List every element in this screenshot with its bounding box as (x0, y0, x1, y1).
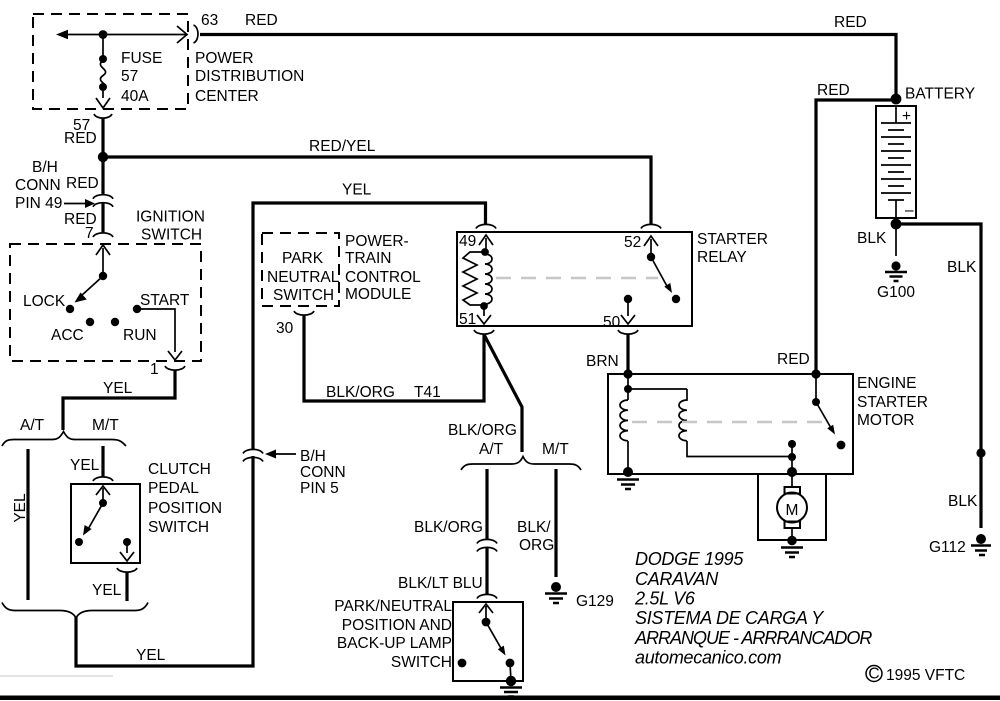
svg-text:B/H: B/H (32, 159, 58, 176)
svg-text:52: 52 (624, 234, 641, 251)
svg-text:CARAVAN: CARAVAN (635, 569, 719, 589)
ignition arm pivot (99, 272, 107, 280)
node battery positive (891, 94, 902, 105)
relay coil bumps (485, 254, 492, 304)
motor link dashed (632, 421, 823, 423)
svg-text:RED: RED (834, 14, 867, 31)
clutch arm pivot (99, 499, 107, 507)
svg-text:STARTER: STARTER (857, 394, 928, 411)
wire BLK battery to G112 (896, 224, 981, 528)
svg-text:YEL: YEL (342, 182, 372, 199)
svg-text:PARK: PARK (282, 250, 324, 267)
svg-text:TRAIN: TRAIN (345, 250, 392, 267)
svg-text:BLK/: BLK/ (517, 519, 551, 536)
svg-text:G112: G112 (929, 539, 966, 556)
fuse F57 element (100, 61, 105, 89)
connector relay pin 49 (476, 224, 496, 228)
svg-text:POWER: POWER (195, 50, 254, 67)
wire YEL M/T branch (101, 446, 104, 477)
node motor feed mid (788, 453, 796, 461)
bottom border line (0, 696, 1000, 701)
ground G100 (885, 272, 907, 281)
svg-text:40A: 40A (121, 88, 149, 105)
connector relay pin 52 (641, 224, 661, 228)
svg-text:51: 51 (459, 311, 476, 328)
svg-text:POSITION: POSITION (148, 500, 222, 517)
power distribution center box (33, 14, 188, 109)
svg-text:2.5L V6: 2.5L V6 (634, 589, 696, 609)
motor brush top (785, 487, 801, 494)
connector ignition pin 7 (93, 233, 113, 237)
wire YEL A/T branch (26, 449, 29, 600)
wire BLK/ORG M/T branch (554, 469, 557, 577)
relay pin 50 male arrow (621, 301, 635, 324)
svg-text:BLK/LT BLU: BLK/LT BLU (398, 575, 483, 592)
contact START (133, 305, 141, 313)
svg-text:M: M (786, 502, 799, 519)
svg-text:A/T: A/T (479, 441, 504, 458)
clutch pedal position switch box (71, 484, 140, 563)
ignition switch box (10, 244, 201, 361)
wire RED fuse 63 to battery (200, 35, 896, 96)
engine starter motor box (608, 374, 853, 474)
svg-text:PIN 49: PIN 49 (15, 195, 62, 212)
svg-text:50: 50 (603, 314, 621, 331)
connector relay pin 51 (474, 330, 494, 334)
motor feed wire (791, 440, 793, 474)
svg-text:RED: RED (245, 12, 278, 29)
solenoid fixed contact (837, 441, 846, 450)
ignition wiper arm (81, 276, 103, 296)
connector pin 63 female (194, 25, 199, 43)
relay switch arm (651, 257, 668, 288)
solenoid hold-in coil (679, 389, 792, 457)
copyright circle C (866, 666, 882, 682)
motor M1 body (777, 493, 807, 523)
ignition pin 7 male arrow (96, 245, 110, 255)
connector PNS pin 30 (294, 311, 314, 315)
clutch contact left (75, 538, 83, 546)
park neutral switch box (262, 233, 339, 306)
svg-text:SWITCH: SWITCH (273, 287, 334, 304)
svg-text:SISTEMA DE CARGA Y: SISTEMA DE CARGA Y (635, 608, 825, 628)
svg-text:PEDAL: PEDAL (148, 480, 199, 497)
ground G129 (545, 594, 567, 604)
ignition arm wire (102, 248, 104, 276)
ground below PNPS (500, 688, 522, 697)
battery plates (881, 123, 911, 200)
svg-text:PARK/NEUTRAL: PARK/NEUTRAL (334, 598, 452, 615)
PNPS ground node (506, 676, 516, 686)
connector clutch switch bottom (117, 568, 137, 572)
svg-text:BLK: BLK (948, 493, 978, 510)
clutch contact right (123, 538, 131, 546)
relay coil zigzag (463, 252, 485, 305)
svg-text:BLK/ORG: BLK/ORG (414, 519, 483, 536)
svg-text:A/T: A/T (20, 417, 45, 434)
motor ground wire (791, 528, 793, 541)
svg-text:B/H: B/H (300, 448, 326, 465)
relay pin 49 male arrow (479, 235, 493, 252)
wire RED/YEL splice to relay pin 52 (103, 157, 651, 225)
wire branch to second coil (628, 388, 687, 390)
PNPS contact lower (506, 659, 515, 668)
svg-text:DISTRIBUTION: DISTRIBUTION (195, 68, 304, 85)
svg-text:49: 49 (459, 233, 476, 250)
node BRN entry (623, 369, 632, 378)
svg-text:ARRANQUE - ARRRANCADOR: ARRANQUE - ARRRANCADOR (634, 628, 872, 648)
starter relay box (457, 232, 692, 326)
brace merge A/T M/T (2, 603, 148, 619)
connector ignition pin 1 (165, 366, 185, 370)
ground G129 node (551, 582, 561, 592)
svg-text:ACC: ACC (51, 327, 84, 344)
svg-text:POWER-: POWER- (345, 233, 409, 250)
node motor feed lower (787, 467, 797, 477)
PDC bus wire (60, 34, 186, 36)
node battery negative (891, 219, 902, 230)
svg-text:CENTER: CENTER (195, 88, 259, 105)
svg-text:BLK/ORG: BLK/ORG (326, 384, 395, 401)
svg-text:G129: G129 (576, 593, 614, 610)
relay fixed contact (672, 295, 680, 303)
svg-text:YEL: YEL (136, 647, 166, 664)
node RED entry (811, 369, 820, 378)
svg-text:DODGE 1995: DODGE 1995 (635, 549, 744, 569)
ground G100 node (891, 261, 900, 270)
svg-text:MODULE: MODULE (345, 286, 411, 303)
wire fuse to pin 57 (102, 89, 104, 98)
svg-text:M/T: M/T (542, 441, 569, 458)
svg-text:BLK: BLK (857, 230, 887, 247)
solenoid feed wire (627, 374, 629, 400)
svg-text:CLUTCH: CLUTCH (148, 461, 211, 478)
solenoid contact arm (816, 402, 831, 428)
wire BLK/ORG relay 51 to brace (484, 335, 522, 453)
battery bottom stub (895, 200, 897, 218)
connector pin 57 female (94, 114, 112, 118)
svg-text:PIN 5: PIN 5 (300, 480, 339, 497)
svg-text:+: + (902, 108, 911, 125)
motor stem wire (791, 474, 793, 487)
svg-text:LOCK: LOCK (23, 293, 66, 310)
wire BLK battery to G100 (895, 224, 897, 256)
svg-text:7: 7 (85, 225, 94, 242)
wire BRN relay 50 to motor (626, 335, 629, 373)
wire RED battery to starter motor (816, 100, 891, 372)
ground G112 node (976, 534, 986, 544)
svg-text:CONN: CONN (300, 464, 346, 481)
ignition pin 1 male arrow (168, 351, 182, 360)
svg-text:FUSE: FUSE (121, 50, 162, 67)
node splice S1 (98, 152, 108, 162)
svg-text:–: – (905, 202, 914, 219)
wire junction to fuse (102, 35, 104, 57)
solenoid pull-in coil (620, 400, 628, 470)
PNP back-up lamp switch box (453, 602, 523, 681)
connector relay pin 50 (618, 330, 638, 334)
connector B/H pin 49 (93, 195, 113, 207)
brace split A/T M/T (2, 432, 126, 447)
node splice BLK right (976, 448, 985, 457)
svg-text:SWITCH: SWITCH (141, 227, 202, 244)
svg-text:BLK: BLK (947, 259, 977, 276)
wire RED to ignition pin 7 (101, 204, 104, 233)
fuse F57 bottom terminal (99, 83, 107, 91)
svg-text:SWITCH: SWITCH (148, 519, 209, 536)
relay link dashed (496, 277, 658, 279)
wire YEL clutch down (125, 573, 128, 602)
svg-text:ENGINE: ENGINE (857, 375, 916, 392)
svg-text:RED: RED (777, 351, 810, 368)
svg-text:T41: T41 (414, 384, 441, 401)
connector clutch switch top (93, 477, 113, 481)
bus left arrowhead (56, 30, 68, 39)
node fuse top junction (99, 30, 108, 39)
svg-text:YEL: YEL (70, 457, 100, 474)
PNPS arm pivot (482, 618, 491, 627)
solenoid contact wire (815, 374, 817, 402)
wire BLK/ORG A/T branch (485, 469, 488, 540)
arrow to B/H pin5 connector (276, 453, 296, 455)
bus right pin arrow (male pin 63) (177, 26, 187, 43)
svg-text:BRN: BRN (586, 353, 619, 370)
svg-text:63: 63 (201, 12, 218, 29)
node motor feed upper (788, 440, 796, 448)
svg-text:SWITCH: SWITCH (391, 654, 452, 671)
svg-text:YEL: YEL (92, 582, 122, 599)
relay pin 51 male arrow (477, 308, 491, 324)
svg-text:BLK/ORG: BLK/ORG (448, 422, 517, 439)
svg-text:BACK-UP LAMP: BACK-UP LAMP (337, 635, 452, 652)
svg-text:NEUTRAL: NEUTRAL (267, 269, 340, 286)
node coil branch (624, 385, 632, 393)
svg-text:M/T: M/T (92, 417, 119, 434)
arrow to B/H connector (64, 203, 85, 205)
svg-text:1995 VFTC: 1995 VFTC (886, 667, 965, 684)
male pin arrow 57 (96, 98, 110, 108)
clutch pin male arrow (96, 486, 110, 495)
svg-text:CONTROL: CONTROL (345, 269, 421, 286)
ground G112 (971, 546, 991, 556)
brace split BLK/ORG (461, 457, 581, 471)
ground below motor (781, 548, 803, 558)
svg-text:STARTER: STARTER (697, 231, 768, 248)
PNPS wire to ground (510, 663, 511, 681)
relay coil bottom terminal (480, 302, 488, 310)
contact RUN (111, 318, 119, 326)
battery B1 case (876, 106, 916, 218)
solenoid contact pivot (812, 398, 820, 406)
svg-text:YEL: YEL (103, 380, 133, 397)
connector inline A/T (477, 539, 497, 551)
svg-text:automecanico.com: automecanico.com (635, 648, 782, 668)
PNPS wiper arm (486, 622, 502, 650)
svg-text:START: START (140, 292, 190, 309)
ground below motor box left (617, 480, 639, 490)
svg-text:RED: RED (66, 175, 99, 192)
contact LOCK (66, 305, 74, 313)
clutch arm wire (102, 488, 104, 503)
svg-text:RUN: RUN (123, 327, 157, 344)
contact ACC (86, 318, 94, 326)
motor brush bottom (785, 522, 801, 529)
svg-text:C: C (868, 666, 879, 683)
PNPS pin male arrow (479, 604, 493, 622)
svg-text:BATTERY: BATTERY (905, 86, 975, 103)
svg-text:CONN: CONN (15, 177, 61, 194)
svg-text:POSITION AND: POSITION AND (342, 617, 452, 634)
wire YEL up and to relay pin 49 (253, 203, 486, 449)
svg-text:30: 30 (276, 320, 294, 337)
svg-text:RED: RED (817, 82, 850, 99)
svg-text:57: 57 (121, 68, 138, 85)
svg-text:IGNITION: IGNITION (136, 209, 205, 226)
wire BLK/ORG T41 pns to relay pin 51 (304, 316, 484, 402)
clutch wiper arm (87, 503, 103, 531)
faint artifact line (0, 675, 113, 677)
connector PNPS top (477, 594, 497, 598)
relay switch pivot (647, 253, 655, 261)
wire YEL merge to B/H conn pin5 (76, 456, 253, 666)
battery top stub (895, 106, 897, 123)
svg-text:RELAY: RELAY (697, 249, 747, 266)
wire START to pin 1 (137, 309, 175, 352)
svg-text:RED/YEL: RED/YEL (309, 138, 376, 155)
PNPS contact left (458, 659, 467, 668)
clutch output arrow (120, 544, 134, 561)
svg-text:ORG: ORG (519, 537, 554, 554)
connector B/H pin 5 (243, 449, 263, 461)
wire RED splice to B/H connector (101, 157, 104, 195)
svg-text:1: 1 (150, 361, 159, 378)
wire RED pin57 to splice (101, 118, 104, 157)
relay pin 50 contact (624, 295, 632, 303)
wire BLK/LT BLU (485, 548, 488, 595)
node coil ground (623, 467, 633, 477)
relay coil top terminal (481, 248, 489, 256)
svg-text:MOTOR: MOTOR (857, 412, 914, 429)
wire YEL pin1 down (63, 371, 175, 431)
svg-text:YEL: YEL (12, 493, 29, 523)
fuse F57 top terminal (99, 55, 107, 63)
relay pin 52 male arrow (644, 236, 658, 257)
svg-text:G100: G100 (877, 284, 915, 301)
motor ground node (787, 536, 797, 546)
svg-text:RED: RED (64, 130, 97, 147)
motor sub-box (758, 474, 826, 540)
